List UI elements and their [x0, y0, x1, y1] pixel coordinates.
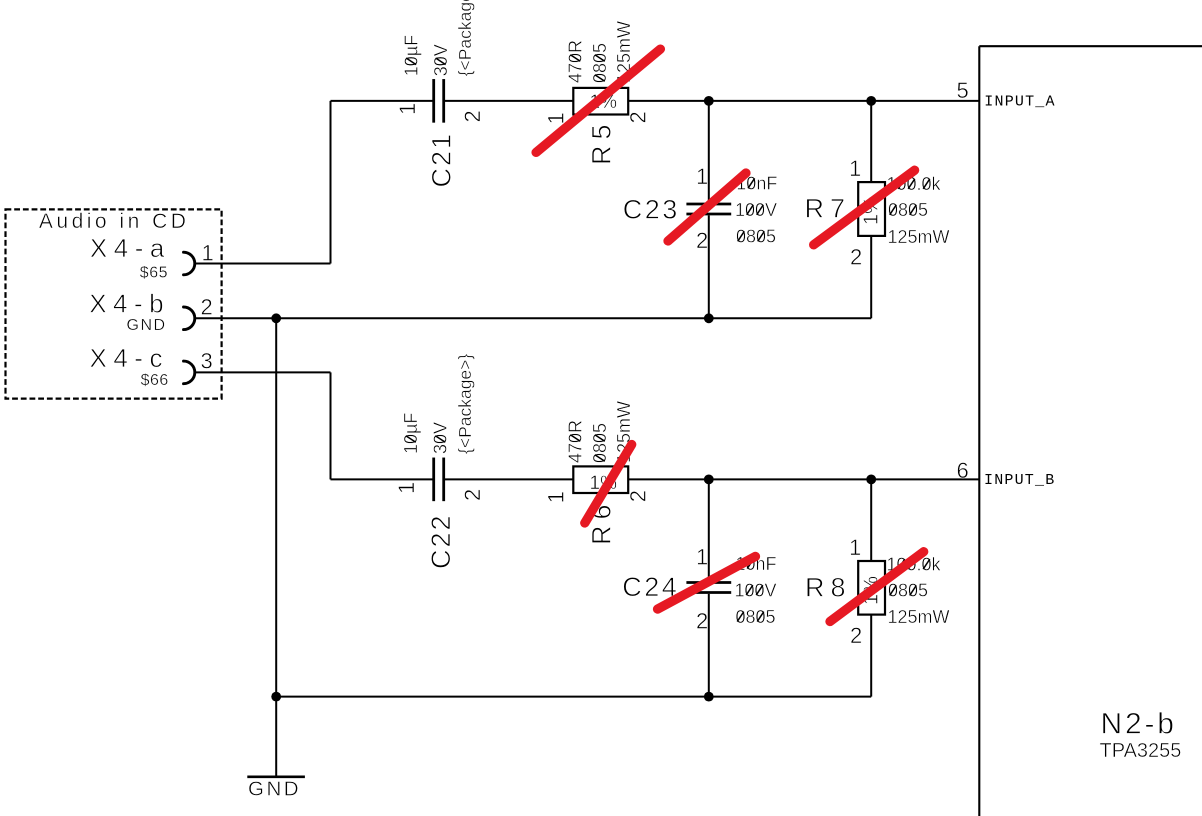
svg-text:X4-b: X4-b	[89, 289, 170, 319]
wire C24 top	[708, 479, 710, 581]
capacitor C21	[434, 79, 444, 123]
svg-text:0805: 0805	[590, 423, 610, 463]
svg-text:125mW: 125mW	[888, 227, 950, 247]
junction input B / R8	[866, 475, 876, 485]
wire input B: C22 to R6	[444, 478, 573, 480]
junction input B / C24	[704, 475, 714, 485]
svg-text:1: 1	[202, 240, 214, 265]
svg-text:Audio in CD: Audio in CD	[39, 210, 190, 233]
svg-text:R8: R8	[805, 573, 852, 603]
label R6	[587, 498, 617, 545]
svg-text:1: 1	[849, 535, 861, 560]
resistor R7	[858, 182, 885, 236]
value 0805 (R6)	[590, 423, 610, 463]
svg-text:2: 2	[201, 294, 213, 319]
value 10uF (C21)	[401, 35, 421, 76]
svg-text:125mW: 125mW	[888, 607, 950, 627]
svg-text:0805: 0805	[736, 607, 776, 627]
svg-text:1: 1	[849, 156, 861, 181]
value 125mW (R5)	[614, 21, 634, 83]
tolerance 1% (R7)	[861, 196, 883, 225]
wire GND stub to ground symbol	[275, 697, 277, 777]
wire GND rail A (pin2 row)	[195, 317, 871, 319]
svg-text:C23: C23	[623, 194, 680, 224]
value 30V (C21)	[431, 44, 451, 76]
junction input A / R7	[866, 96, 876, 106]
svg-text:30V: 30V	[431, 44, 451, 76]
pin number 2 (C22)	[460, 489, 485, 501]
DNP mark C23	[668, 173, 746, 241]
connector pin X4-a	[184, 252, 195, 275]
label R5	[587, 118, 617, 165]
wire pin1 to riser	[195, 263, 331, 265]
wire C24 bottom	[708, 594, 710, 697]
svg-text:TPA3255: TPA3255	[1100, 740, 1182, 762]
pin number 2 (R5)	[626, 111, 651, 123]
junction GND rail B / dropper	[271, 692, 281, 702]
svg-text:100V: 100V	[735, 200, 777, 220]
DNP mark R7	[814, 170, 915, 245]
junction GND rail B / C24	[704, 692, 714, 702]
svg-text:470R: 470R	[566, 420, 586, 463]
svg-text:GND: GND	[248, 777, 301, 800]
svg-text:100V: 100V	[735, 580, 777, 600]
pin number 1 (R5)	[544, 112, 569, 124]
svg-text:1: 1	[696, 164, 708, 189]
connector pin X4-b	[184, 307, 195, 330]
attribute Package (C21)	[455, 0, 475, 76]
connector X4 frame (dashed box)	[6, 209, 222, 398]
label C22	[426, 513, 456, 569]
junction input A / C23	[704, 96, 714, 106]
svg-text:INPUT_A: INPUT_A	[984, 94, 1055, 111]
wire input A: corner to C21	[331, 100, 434, 102]
svg-text:6: 6	[957, 458, 969, 483]
wire riser pin1 up to input A rail	[330, 101, 332, 264]
svg-text:2: 2	[626, 490, 651, 502]
tolerance 1% (R8)	[861, 576, 883, 605]
DNP mark R6	[585, 445, 632, 524]
svg-text:INPUT_B: INPUT_B	[984, 472, 1055, 489]
wire R8 top	[870, 479, 872, 561]
IC N2-b top edge	[979, 45, 1202, 47]
svg-text:2: 2	[460, 489, 485, 501]
svg-text:2: 2	[696, 608, 708, 633]
svg-text:X4-c: X4-c	[90, 343, 169, 373]
svg-text:C22: C22	[426, 513, 456, 569]
capacitor C24	[686, 583, 731, 593]
attribute Package (C22)	[455, 354, 475, 454]
pin number 1 (C22)	[394, 482, 419, 494]
svg-text:1: 1	[544, 491, 569, 503]
svg-text:0805: 0805	[888, 200, 928, 220]
junction pin2/GND	[271, 313, 281, 323]
svg-text:C21: C21	[426, 132, 456, 188]
value 30V (C22)	[431, 422, 451, 454]
svg-text:$65: $65	[140, 264, 168, 281]
wire R8 bottom	[870, 615, 872, 697]
svg-text:30V: 30V	[431, 422, 451, 454]
value 0805 (R5)	[590, 43, 610, 83]
wire GND rail B	[276, 696, 871, 698]
capacitor C23	[686, 204, 731, 214]
wire pin3 to dropper	[195, 371, 331, 373]
svg-text:GND: GND	[127, 317, 167, 334]
ground symbol GND	[247, 775, 305, 778]
value 470R (R6)	[566, 420, 586, 463]
label C21	[426, 132, 456, 188]
pin number 1 (C21)	[395, 103, 420, 115]
svg-text:5: 5	[957, 78, 969, 103]
svg-text:X4-a: X4-a	[90, 233, 171, 263]
svg-text:R5: R5	[587, 118, 617, 165]
svg-text:0805: 0805	[888, 581, 928, 601]
svg-text:2: 2	[626, 111, 651, 123]
wire input B: corner to C22	[331, 478, 434, 480]
svg-text:1: 1	[696, 545, 708, 570]
capacitor C22	[434, 458, 444, 502]
value 125mW (R6)	[614, 401, 634, 463]
junction GND rail A / C23	[704, 313, 714, 323]
DNP mark C24	[658, 556, 756, 609]
svg-text:10µF: 10µF	[401, 35, 421, 76]
value 470R (R5)	[566, 40, 586, 83]
svg-text:0805: 0805	[736, 227, 776, 247]
svg-text:2: 2	[460, 110, 485, 122]
wire input A: C21 to R5	[444, 100, 573, 102]
wire input A: R5 to IC pin 5	[628, 100, 979, 102]
wire C23 bottom	[708, 215, 710, 318]
pin number 1 (R6)	[544, 491, 569, 503]
svg-text:10µF: 10µF	[401, 413, 421, 454]
wire dropper pin3 down to input B rail	[330, 372, 332, 479]
svg-text:$66: $66	[141, 372, 169, 389]
svg-text:3: 3	[201, 349, 213, 374]
svg-text:2: 2	[850, 623, 862, 648]
svg-text:{<Package>}: {<Package>}	[455, 0, 475, 76]
svg-text:1: 1	[394, 482, 419, 494]
wire GND vertical from pin2 junction	[275, 318, 277, 696]
DNP mark R5	[536, 49, 660, 152]
resistor R6	[573, 466, 628, 493]
pin number 2 (R6)	[626, 490, 651, 502]
wire R7 bottom	[870, 236, 872, 318]
connector pin X4-c	[184, 361, 195, 384]
svg-text:N2-b: N2-b	[1101, 708, 1177, 741]
wire R7 top	[870, 101, 872, 182]
svg-text:2: 2	[850, 245, 862, 270]
svg-text:470R: 470R	[566, 40, 586, 83]
DNP mark R8	[830, 552, 924, 622]
wire input B: R6 to IC pin 6	[628, 478, 979, 480]
svg-text:2: 2	[696, 228, 708, 253]
wire C23 top	[708, 101, 710, 203]
resistor R5	[573, 88, 628, 115]
op-amp/IC N2-b border left edge	[978, 46, 980, 816]
value 10uF (C22)	[401, 413, 421, 454]
resistor R8	[858, 561, 885, 615]
pin number 2 (C21)	[460, 110, 485, 122]
svg-text:1: 1	[395, 103, 420, 115]
svg-text:0805: 0805	[590, 43, 610, 83]
svg-text:{<Package>}: {<Package>}	[455, 354, 475, 454]
